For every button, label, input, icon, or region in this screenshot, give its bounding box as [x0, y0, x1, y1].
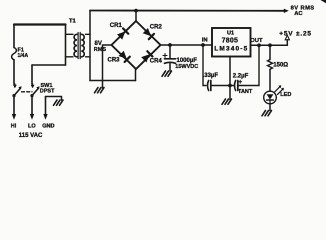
ground (regulator)	[222, 99, 232, 104]
wire .33uF to gnd node	[211, 85, 230, 87]
capacitor 2.2uF	[230, 85, 234, 87]
svg-text:LED: LED	[280, 92, 291, 98]
wire DC+ to regulator IN	[161, 44, 213, 46]
node top junction	[134, 9, 138, 13]
node regulator ground junction	[228, 84, 232, 88]
diode CR4	[141, 51, 152, 62]
svg-text:HI: HI	[11, 123, 17, 129]
wire to resistor	[269, 45, 271, 59]
svg-text:LO: LO	[28, 123, 36, 129]
wire LED to ground	[269, 104, 271, 111]
switch SW1 pole B fixed contact	[32, 84, 34, 87]
fuse F1	[12, 48, 17, 60]
svg-text:CR3: CR3	[108, 58, 121, 64]
svg-text:RMS: RMS	[94, 47, 107, 53]
wire bridge left corner to ground	[103, 45, 112, 88]
switch SW1 pole A blade	[12, 94, 15, 97]
wire primary bottom	[32, 64, 66, 66]
terminal GND arrow	[43, 114, 47, 120]
LED	[264, 91, 277, 104]
svg-text:GND: GND	[42, 123, 54, 129]
svg-text:OUT: OUT	[250, 38, 263, 44]
node 2.2uF junction	[257, 43, 261, 47]
wire HI lower segment	[13, 96, 15, 115]
transformer T1 primary frame	[65, 25, 67, 66]
wire bridge bottom corner drop	[135, 69, 137, 81]
fuse F1 label	[18, 48, 29, 59]
diode CR1	[117, 28, 128, 39]
wire resistor to LED	[269, 69, 271, 91]
wire LO lower segment	[31, 96, 33, 115]
node resistor junction	[268, 43, 272, 47]
diode CR2	[143, 28, 154, 39]
svg-text:CR4: CR4	[150, 59, 163, 65]
svg-text:1000µF: 1000µF	[177, 58, 198, 64]
label +5V	[279, 30, 312, 37]
arrow 8V RMS AC	[284, 9, 289, 13]
LED emission arrows	[275, 87, 283, 95]
capacitor 1000uF plates	[165, 58, 176, 60]
node .33uF junction	[201, 43, 205, 47]
transformer T1 secondary coil	[81, 34, 84, 57]
svg-text:U1: U1	[227, 30, 234, 36]
transformer secondary label 8V RMS	[94, 41, 107, 53]
switch SW1 linkage dashed	[22, 91, 33, 93]
svg-text:+5V ±.25: +5V ±.25	[279, 30, 312, 37]
wire .33uF branch	[203, 45, 206, 86]
transformer T1 primary stubs	[66, 33, 74, 35]
transformer T1 primary coil	[74, 34, 77, 57]
bridge diamond edges	[112, 21, 161, 69]
wire GND to ground	[46, 97, 62, 101]
svg-text:AC: AC	[294, 11, 303, 17]
capacitor 1000uF lower lead	[169, 63, 171, 72]
svg-text:115 VAC: 115 VAC	[19, 133, 43, 139]
wire +5V riser	[286, 40, 288, 46]
resistor 150 ohm	[268, 60, 273, 70]
svg-text:T1: T1	[69, 18, 77, 24]
wire GND terminal riser	[45, 97, 47, 116]
op-amp U1 regulator box	[212, 28, 251, 57]
svg-text:2.2µF: 2.2µF	[233, 74, 249, 80]
svg-text:CR2: CR2	[150, 24, 163, 30]
ground (filter cap)	[162, 71, 172, 76]
node filter cap junction	[168, 43, 172, 47]
transformer T1 secondary stubs	[86, 33, 91, 35]
svg-text:7805: 7805	[222, 38, 239, 45]
wire regulator GND pin	[229, 57, 231, 100]
terminal LO arrow	[30, 114, 34, 120]
transformer T1 core	[77, 33, 79, 59]
capacitor 1000uF plus sign	[163, 54, 167, 58]
ground (input GND)	[54, 100, 64, 105]
wire HI mid segment	[13, 60, 15, 84]
svg-text:150Ω: 150Ω	[273, 63, 288, 69]
svg-text:1/4A: 1/4A	[18, 53, 29, 59]
wire secondary vertical	[89, 11, 91, 81]
terminal labels	[11, 123, 55, 139]
ground (LED)	[262, 111, 272, 116]
terminal HI arrow	[12, 114, 16, 120]
svg-text:DPST: DPST	[40, 89, 55, 95]
svg-text:.33µF: .33µF	[203, 73, 219, 79]
ground (bridge negative)	[95, 88, 105, 93]
wire HI upper segment	[13, 25, 15, 48]
IN pin label	[202, 38, 208, 44]
wire primary top	[14, 23, 66, 25]
OUT pin label	[250, 38, 263, 44]
capacitor 1000uF lead	[169, 45, 171, 58]
page corner artifact	[321, 0, 326, 3]
svg-text:CR1: CR1	[110, 23, 123, 29]
svg-text:LM340-5: LM340-5	[214, 46, 248, 53]
wire LO upper segment	[31, 65, 33, 84]
switch SW1 pole B blade	[30, 94, 33, 97]
wire bottom AC return	[90, 80, 136, 82]
switch SW1 label	[40, 83, 55, 95]
transformer T1 label	[69, 18, 77, 24]
wire 2.2uF to OUT	[238, 45, 259, 85]
svg-text:TANT: TANT	[238, 89, 253, 95]
capacitor 1000uF labels	[175, 58, 198, 70]
svg-text:15WVDC: 15WVDC	[175, 64, 198, 70]
wire junction to bridge top	[135, 11, 137, 21]
wire OUT bus	[251, 44, 288, 46]
wire top AC bus	[90, 10, 284, 12]
switch SW1 pole A fixed contact	[14, 84, 16, 87]
arrow +5V open head	[285, 35, 289, 40]
diode CR3	[119, 51, 130, 62]
svg-text:IN: IN	[202, 38, 208, 44]
capacitor .33uF	[208, 81, 209, 91]
